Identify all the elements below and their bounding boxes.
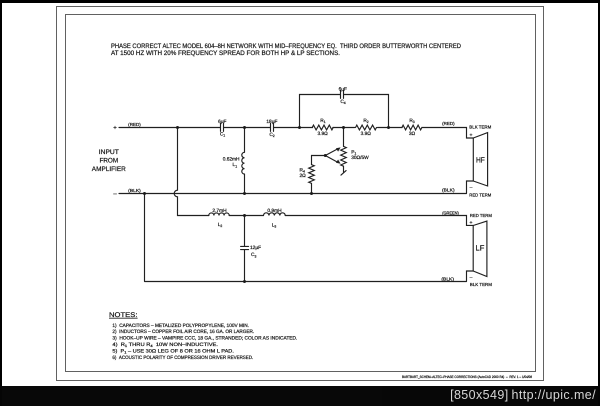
svg-text:AT 1500 HZ WITH 20% FREQUENCY: AT 1500 HZ WITH 20% FREQUENCY SPREAD FOR… — [111, 50, 340, 57]
svg-text:P1: P1 — [351, 149, 356, 155]
svg-text:2) INDUCTORS – COPPER FOIL AI: 2) INDUCTORS – COPPER FOIL AIR CORE, 16 … — [112, 329, 254, 335]
svg-text:LF: LF — [476, 243, 485, 252]
svg-text:6) ACOUSTIC POLARITY OF COMPR: 6) ACOUSTIC POLARITY OF COMPRESSION DRIV… — [112, 355, 253, 361]
svg-text:(BLK): (BLK) — [441, 277, 454, 282]
svg-text:(BLK): (BLK) — [442, 188, 455, 193]
svg-text:–: – — [470, 275, 473, 281]
svg-text:R2: R2 — [363, 118, 368, 124]
svg-text:0.9mH: 0.9mH — [267, 208, 282, 214]
svg-text:HF: HF — [476, 156, 485, 165]
svg-text:(BLK): (BLK) — [128, 188, 141, 193]
svg-text:18µF: 18µF — [266, 119, 277, 125]
svg-text:PHASE CORRECT ALTEC MODEL 604–: PHASE CORRECT ALTEC MODEL 604–8H NETWORK… — [111, 43, 461, 50]
svg-text:30Ω/5W: 30Ω/5W — [351, 155, 369, 161]
svg-text:3.9Ω: 3.9Ω — [361, 131, 372, 137]
svg-text:0.62mH: 0.62mH — [223, 157, 240, 163]
svg-text:(GREEN): (GREEN) — [442, 211, 459, 216]
svg-text:2.7mH: 2.7mH — [212, 208, 227, 214]
svg-text:–: – — [470, 185, 473, 191]
svg-text:6µF: 6µF — [218, 119, 226, 125]
svg-text:2Ω: 2Ω — [300, 173, 307, 179]
svg-text:C4: C4 — [340, 99, 345, 105]
svg-text:3.9Ω: 3.9Ω — [317, 131, 328, 137]
svg-text:+: + — [113, 126, 117, 132]
svg-text:C1: C1 — [220, 132, 225, 138]
svg-text:+: + — [470, 220, 473, 226]
svg-text:(RED): (RED) — [128, 122, 141, 127]
svg-text:C3: C3 — [251, 252, 256, 258]
svg-text:L1: L1 — [233, 162, 238, 168]
svg-text:(RED): (RED) — [442, 121, 455, 126]
svg-text:–: – — [113, 191, 117, 197]
svg-text:3Ω: 3Ω — [409, 131, 416, 137]
svg-text:C2: C2 — [269, 132, 274, 138]
svg-text:12µF: 12µF — [250, 245, 261, 251]
svg-text:BARTBART_SCHEM–ALTEC–PHASE COR: BARTBART_SCHEM–ALTEC–PHASE CORRECTIONS (… — [402, 375, 532, 379]
svg-text:+: + — [470, 132, 473, 138]
svg-text:RED TERM: RED TERM — [469, 193, 491, 198]
svg-text:6µF: 6µF — [339, 87, 347, 93]
svg-text:3) HOOK–UP WIRE – VAMPIRE CCC: 3) HOOK–UP WIRE – VAMPIRE CCC, 18 GA., S… — [112, 336, 297, 342]
svg-text:INPUT: INPUT — [99, 149, 119, 156]
svg-text:BLK TERM: BLK TERM — [470, 282, 492, 287]
svg-text:FROM: FROM — [99, 157, 118, 164]
svg-text:R1: R1 — [320, 118, 325, 124]
svg-text:R3: R3 — [409, 118, 414, 124]
svg-text:AMPLIFIER: AMPLIFIER — [92, 166, 126, 173]
svg-text:L2: L2 — [218, 222, 223, 228]
svg-text:5) P1 – USE 30Ω LEG OF 8 OR 1: 5) P1 – USE 30Ω LEG OF 8 OR 16 OHM L PAD… — [112, 349, 233, 355]
svg-text:RED TERM: RED TERM — [470, 213, 492, 218]
svg-text:4) R1 THRU R4 10W NON–INDUCT: 4) R1 THRU R4 10W NON–INDUCTIVE. — [112, 342, 218, 348]
svg-text:1) CAPACITORS – METALIZED POL: 1) CAPACITORS – METALIZED POLYPROPYLENE,… — [112, 323, 249, 329]
svg-text:L3: L3 — [272, 222, 277, 228]
svg-text:R4: R4 — [300, 167, 305, 173]
svg-text:BLK TERM: BLK TERM — [469, 124, 491, 129]
